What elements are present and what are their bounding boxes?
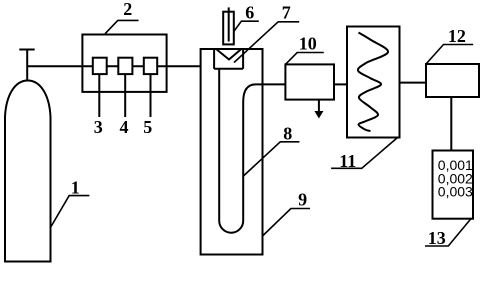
svg-text:11: 11 [339, 151, 356, 171]
svg-text:3: 3 [94, 117, 103, 137]
svg-text:4: 4 [120, 117, 129, 137]
svg-text:2: 2 [123, 0, 132, 19]
svg-text:10: 10 [299, 34, 317, 54]
svg-text:0,003: 0,003 [438, 183, 473, 199]
svg-text:12: 12 [448, 26, 466, 46]
svg-text:5: 5 [143, 117, 152, 137]
svg-text:7: 7 [282, 3, 291, 23]
svg-text:9: 9 [298, 190, 307, 210]
svg-text:1: 1 [71, 177, 80, 197]
svg-text:13: 13 [428, 228, 446, 248]
svg-text:8: 8 [283, 124, 292, 144]
svg-text:6: 6 [245, 3, 254, 23]
